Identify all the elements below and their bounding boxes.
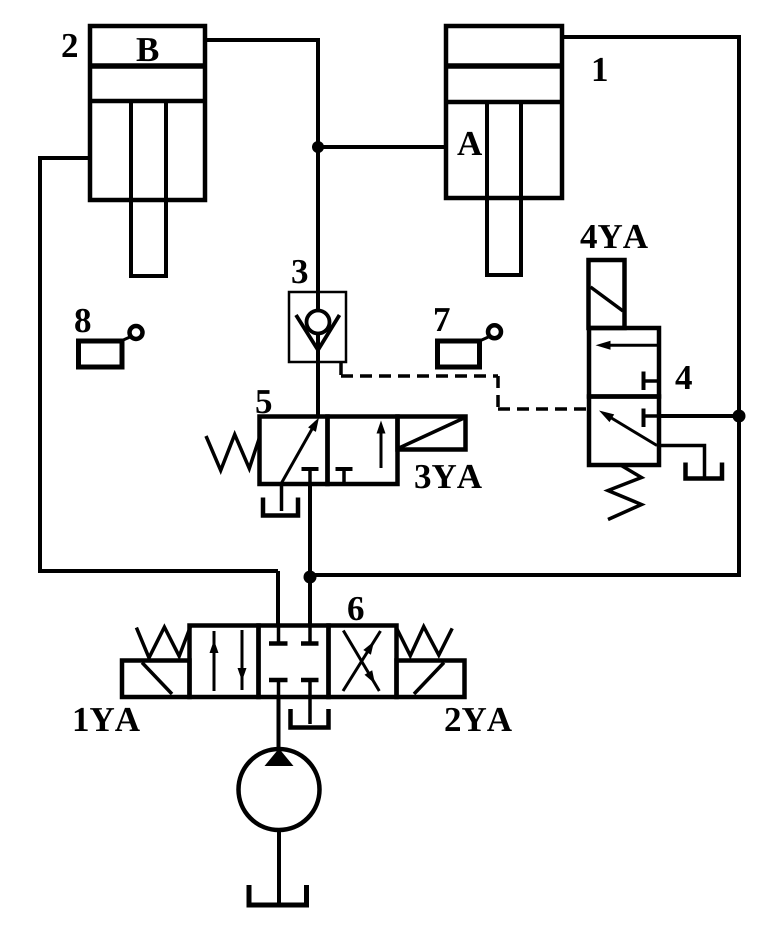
label 1YA	[75, 708, 140, 731]
valve 6 crossed arrows right square	[343, 631, 381, 691]
wire from junction to cylinder 1 port A	[318, 145, 448, 149]
wire from cylinder 1 top to right rail	[560, 35, 739, 39]
wire left rail vertical	[38, 156, 42, 573]
check valve 3 ball	[307, 311, 330, 334]
pilot dashed line horizontal 2	[498, 407, 589, 411]
valve 4 blocked port T top square	[642, 372, 646, 391]
node junction dot at center/A branch	[312, 141, 324, 153]
label A	[457, 132, 482, 155]
valve 4 tank line	[657, 446, 705, 479]
limit switch 8 lever	[121, 337, 131, 342]
label 4YA	[580, 225, 647, 248]
pilot dashed line horizontal 1	[341, 374, 498, 378]
valve 4 bottom position square	[589, 397, 659, 466]
label 2YA	[445, 708, 511, 731]
valve 5 spring	[206, 435, 260, 471]
wire down into valve 6 left top port	[276, 571, 280, 627]
valve 6 up arrow left square	[213, 631, 216, 691]
wire valve 5 outlet down to valve 6	[308, 484, 312, 627]
valve 6 right position square	[329, 626, 397, 698]
label 4	[675, 366, 691, 389]
cylinder 2 piston rod	[131, 101, 166, 276]
valve 4 blocked port T bottom square	[642, 409, 646, 428]
valve 6 middle square blocked port T bottom-right	[301, 678, 319, 682]
valve 4 spring below	[608, 465, 642, 520]
valve 6 tank stub	[308, 697, 312, 724]
valve 6 down arrow left square	[241, 630, 244, 690]
pilot dashed line vertical	[496, 376, 500, 409]
label 8	[75, 309, 90, 333]
cylinder 1 piston top line	[446, 63, 562, 69]
valve 6 tank symbol	[291, 709, 329, 728]
valve 6 middle position square	[259, 626, 329, 698]
check valve 3 box	[289, 292, 346, 362]
valve 6 left position square	[190, 626, 259, 698]
label 3YA	[415, 465, 481, 489]
valve 6 right spring	[397, 627, 452, 656]
wire pump to tank	[277, 830, 281, 904]
limit switch 7 lever	[480, 337, 490, 342]
pilot stub from check valve	[339, 362, 343, 375]
node junction dot valve 4 output on right rail	[733, 410, 746, 423]
valve 5 flow arrow up in right square	[380, 428, 383, 468]
wire center vertical through check valve to valve 5	[316, 38, 320, 417]
pump tank symbol	[249, 885, 307, 905]
pump circle	[239, 749, 320, 830]
solenoid 3YA box	[398, 417, 466, 450]
label 6	[348, 597, 363, 621]
valve 4 flow arrow left in top square	[610, 344, 657, 347]
valve 6 middle square blocked port T bottom-left	[269, 678, 288, 682]
valve 5 left position square	[260, 417, 328, 485]
node junction dot above valve 6	[304, 571, 317, 584]
valve 6 middle square blocked port T top-right	[308, 626, 312, 642]
valve 5 tank stub	[280, 484, 284, 511]
valve 4 flow arrow diagonal in bottom square	[604, 414, 657, 446]
valve 5 flow arrow diagonal	[282, 422, 317, 483]
limit switch 7 roller	[488, 325, 501, 338]
solenoid 1YA box	[122, 661, 190, 698]
valve 5 blocked port T right	[336, 467, 353, 471]
valve 5 tank symbol	[263, 498, 298, 516]
valve 5 right position square	[328, 417, 398, 485]
solenoid 2YA box	[397, 661, 465, 698]
limit switch 8 body	[79, 341, 123, 367]
valve 4 top position square	[589, 328, 659, 397]
label 2	[62, 34, 77, 57]
limit switch 8 roller	[130, 326, 143, 339]
limit switch 7 body	[438, 341, 480, 367]
label 5	[256, 390, 271, 413]
check valve 3 seat	[296, 315, 340, 350]
wire right rail bottom horizontal to center node	[310, 573, 739, 577]
wire from cylinder 2 port B to center node	[203, 38, 318, 42]
valve 5 blocked port T left	[302, 467, 319, 471]
valve 6 left spring	[136, 627, 190, 658]
label B	[137, 38, 159, 61]
valve 6 middle square blocked port T top-left	[277, 626, 281, 642]
label 3	[292, 260, 307, 284]
label 7	[435, 308, 450, 331]
wire cylinder 2 left port to left rail	[40, 156, 92, 160]
label 1	[594, 58, 607, 81]
cylinder 1 piston bottom line	[446, 100, 562, 105]
wire right rail vertical	[737, 35, 741, 577]
cylinder 1 piston rod	[487, 102, 521, 275]
cylinder 2 piston bottom line	[90, 99, 205, 104]
wire valve 4 output to right rail	[659, 414, 739, 418]
wire left rail bottom horizontal	[38, 569, 278, 573]
cylinder 2 piston top line	[90, 63, 205, 69]
pump triangle	[265, 749, 294, 767]
wire valve 6 to pump	[277, 697, 281, 752]
cylinder 1 body	[446, 26, 562, 198]
solenoid 4YA box	[589, 260, 625, 328]
cylinder 2 body	[90, 26, 205, 200]
valve 4 tank symbol	[686, 463, 723, 479]
